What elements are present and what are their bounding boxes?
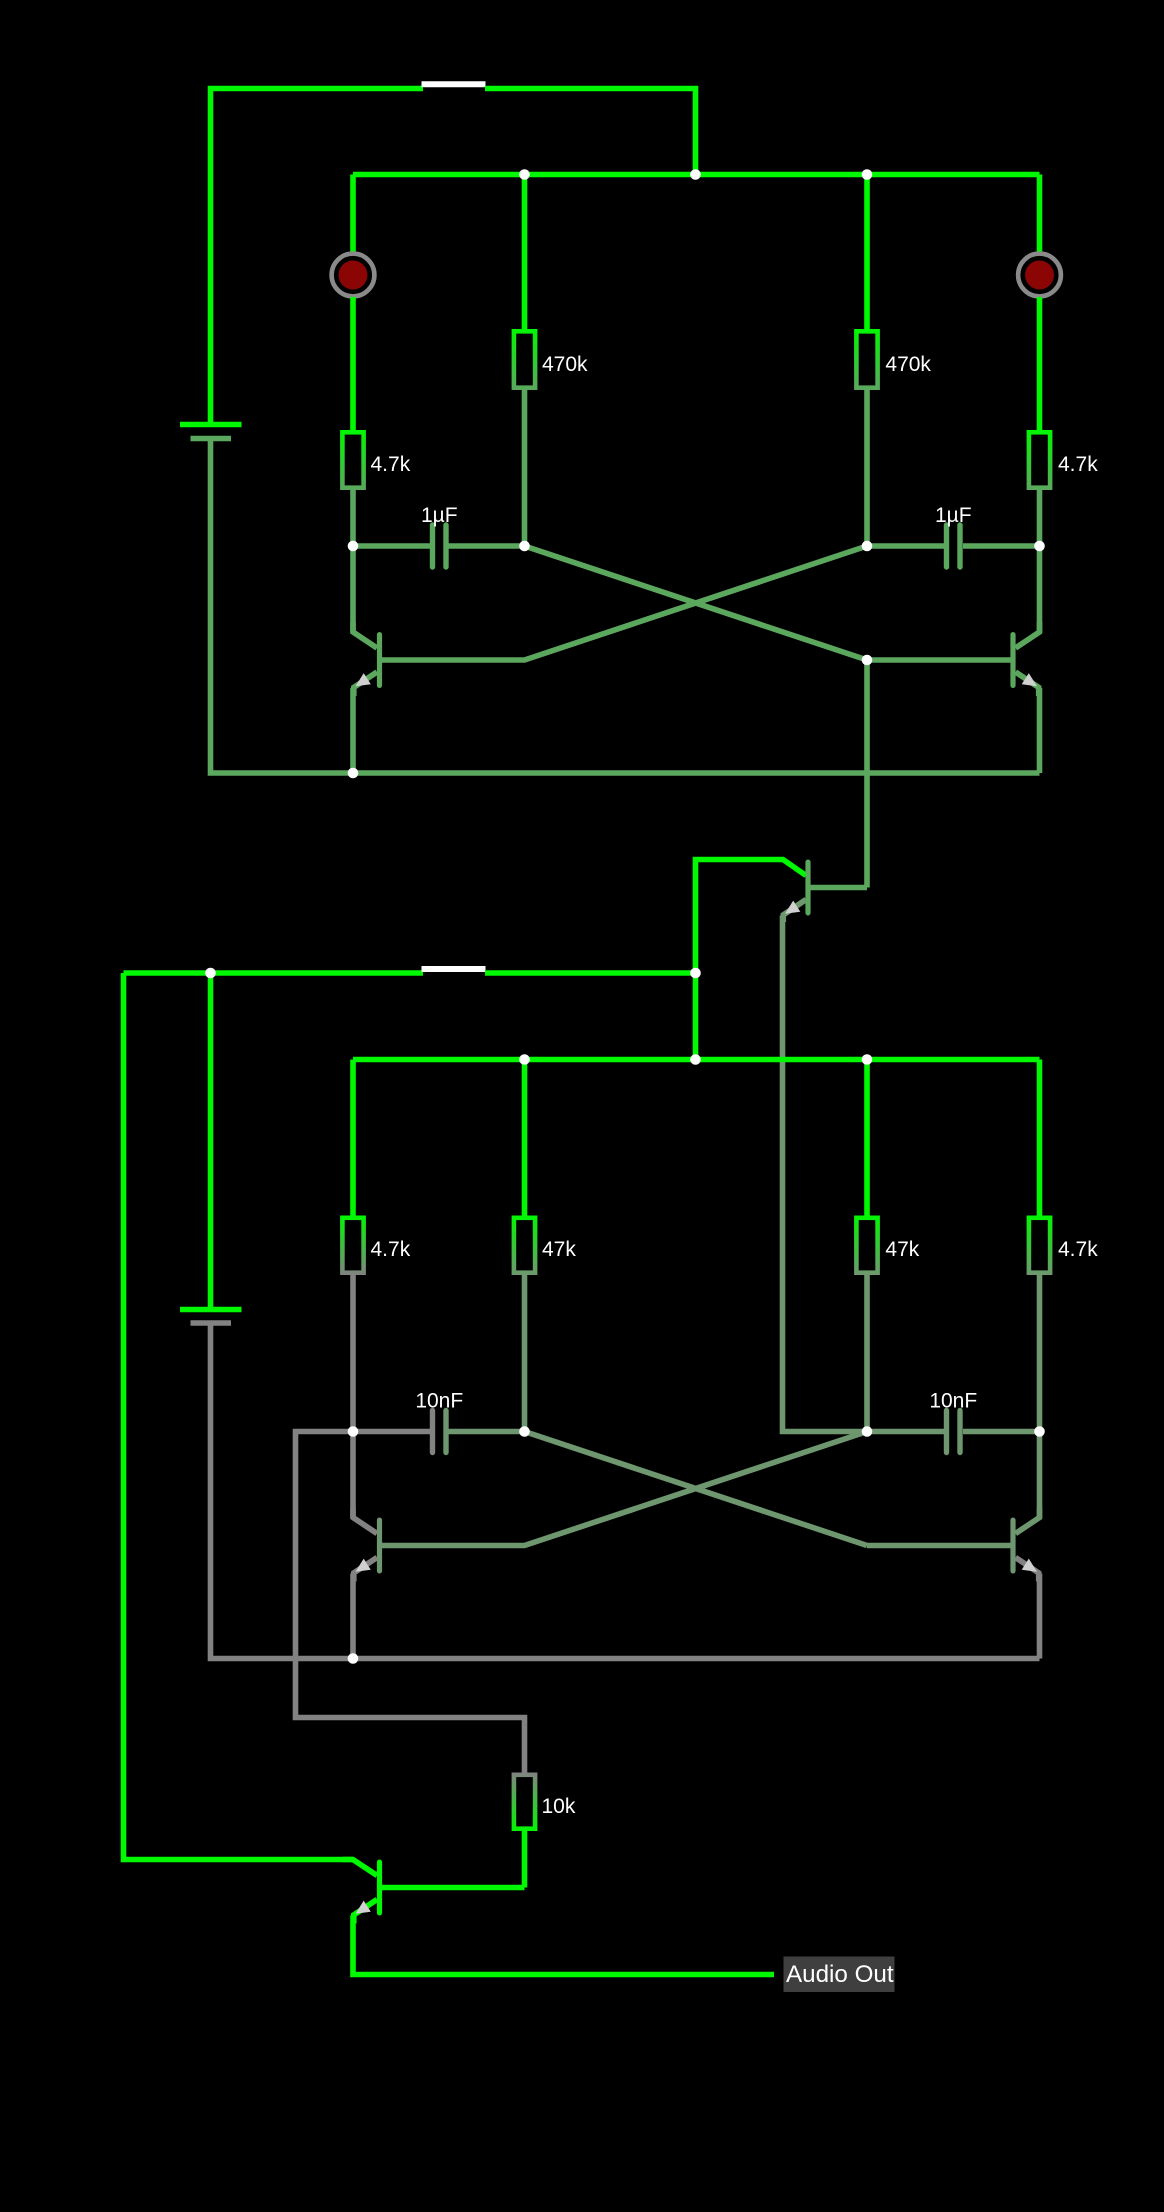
wire rail to LED D2 (1037, 175, 1043, 254)
battery B1 9V (180, 425, 242, 439)
resistor R4 4.7k (1029, 432, 1098, 487)
wire Q3 base lead (810, 885, 867, 891)
svg-text:Audio Out: Audio Out (786, 1961, 894, 1988)
transistor Q6 (NPN) output emitter follower emitter lead (354, 1900, 377, 1924)
wire R4 to node/collector Q2 (1037, 490, 1043, 546)
resistor R3 470k (856, 331, 931, 387)
junction rail1-center (690, 169, 701, 180)
wire Q4 emitter to ground rail (350, 1574, 356, 1659)
transistor Q5 (NPN) emitter lead (1016, 1558, 1039, 1582)
svg-text:4.7k: 4.7k (371, 1238, 411, 1261)
transistor Q5 collector wire (1037, 1432, 1043, 1518)
capacitor C1 1uF (421, 504, 458, 567)
transistor Q5 (NPN) emitter arrow (1022, 1559, 1037, 1572)
wire rail to LED D1 (350, 175, 356, 254)
wire C3 to R6 node (449, 1429, 525, 1435)
wire rail to resistor R8 (1037, 1060, 1043, 1216)
wire Q3 emitter down to C4 left node (783, 916, 868, 1432)
wire R3 node to capacitor C2 (867, 543, 945, 549)
wire Q6 base lead (382, 1885, 525, 1891)
wire rail to resistor R6 (522, 1060, 528, 1216)
wire Q6 emitter to audio output (353, 1916, 774, 1975)
wire R3 to node (864, 390, 870, 546)
transistor Q1 (NPN) base bar (377, 635, 382, 686)
transistor Q2 (NPN) emitter lead (1016, 672, 1039, 696)
wire R7 to node (864, 1275, 870, 1432)
wire LED D2 to resistor R4 (1037, 297, 1043, 430)
resistor R8 4.7k (1029, 1218, 1098, 1273)
LED D2 (red) (1018, 254, 1061, 297)
switch S2 (closed) lever (422, 966, 486, 972)
transistor Q4 (NPN) base bar (377, 1520, 382, 1571)
wire rail to resistor R2 (522, 175, 528, 330)
LED D1 (red) (332, 254, 375, 297)
capacitor C2 1uF (935, 504, 972, 567)
svg-text:1µF: 1µF (421, 504, 458, 527)
transistor Q6 (NPN) output emitter follower emitter arrow (356, 1901, 371, 1914)
resistor R5 4.7k (342, 1218, 410, 1273)
wire Q5 emitter to ground rail (1037, 1574, 1043, 1659)
wire rail to resistor R7 (864, 1060, 870, 1216)
wire switch S1 right lead to center drop (485, 89, 696, 175)
wire circuit2 V+ to Q3 collector (696, 860, 807, 974)
wire R8 to node/collector Q5 (1037, 1275, 1043, 1432)
label Audio Out (784, 1957, 895, 1993)
wire battery B1 - to bottom rail circuit 1 (211, 441, 1040, 773)
transistor Q2 (NPN) emitter arrow (1022, 673, 1037, 686)
svg-text:4.7k: 4.7k (1058, 453, 1098, 476)
svg-text:4.7k: 4.7k (1058, 1238, 1098, 1261)
wire Q4 collector branch to 10k resistor (296, 1432, 525, 1773)
transistor Q6 (NPN) output emitter follower base bar (377, 1862, 382, 1913)
wire cross-coupling C3 node to Q5 base (525, 1432, 868, 1546)
transistor Q2 collector wire (1037, 546, 1043, 632)
wire Q2 emitter to negative rail (1037, 688, 1043, 773)
transistor Q5 (NPN) base bar (1010, 1520, 1015, 1571)
transistor Q4 (NPN) emitter arrow (356, 1559, 371, 1572)
wire cross-coupling C1 node to Q2 base (525, 546, 868, 660)
wire C4 to Q5 collector node (963, 1429, 1040, 1435)
svg-text:10nF: 10nF (929, 1390, 977, 1413)
wire battery B2 - to bottom rail circuit 2 (211, 1326, 1040, 1659)
wire R5 to node/collector Q4 (350, 1275, 356, 1432)
junction rail1-470k-left (519, 169, 530, 180)
transistor Q1 (NPN) emitter lead (354, 672, 377, 696)
transistor Q5 (NPN) collector lead (1016, 1508, 1040, 1534)
wire V+ rail circuit 1 (353, 172, 1040, 178)
wire R2 to node (522, 390, 528, 546)
svg-text:4.7k: 4.7k (371, 453, 411, 476)
node Q3 collector on rail (690, 968, 701, 979)
wire R1 to node/collector Q1 (350, 490, 356, 546)
wire Q5 base lead (867, 1543, 1012, 1549)
node Q1 collector (348, 541, 359, 552)
junction rail2-47k-right (862, 1054, 873, 1065)
wire center drop circuit2 (693, 973, 699, 1060)
transistor Q1 (NPN) emitter arrow (356, 673, 371, 686)
resistor R1 4.7k (342, 432, 410, 487)
wire Q4 collector to capacitor C3 (353, 1429, 430, 1435)
resistor R2 470k (514, 331, 588, 387)
wire rail to resistor R5 (350, 1060, 356, 1216)
svg-text:10nF: 10nF (415, 1390, 463, 1413)
wire Q2 base lead (867, 657, 1012, 663)
transistor Q6 (NPN) output emitter follower collector lead (343, 1860, 377, 1876)
wire cross-coupling C4 node to Q4 base (382, 1432, 868, 1546)
node Q4 collector (348, 1426, 359, 1437)
wire cross-coupling C2 node to Q1 base (382, 546, 868, 660)
capacitor C4 10nF (929, 1390, 977, 1453)
resistor R7 47k (856, 1218, 919, 1273)
junction rail2-center (690, 1054, 701, 1065)
junction rail1-470k-right (862, 169, 873, 180)
node Q2 base junction (862, 655, 873, 666)
transistor Q4 collector wire (350, 1432, 356, 1518)
wire left V+ column to output transistor Q6 (124, 973, 354, 1860)
wire Q1 emitter to negative rail (350, 688, 356, 773)
svg-text:470k: 470k (542, 353, 588, 376)
junction rail2-47k-left (519, 1054, 530, 1065)
node R6 bottom / C3 right (519, 1426, 530, 1437)
transistor Q2 (NPN) base bar (1010, 635, 1015, 686)
resistor R9 10k (514, 1775, 576, 1829)
transistor Q2 (NPN) collector lead (1016, 622, 1040, 648)
wire R6 to node (522, 1275, 528, 1432)
wire switch S2 to center node (485, 970, 696, 976)
wire V+ rail circuit 2 (353, 1057, 1040, 1063)
transistor Q3 base bar (805, 862, 810, 913)
wire battery B1 + to top rail and switch S1 left lead (211, 89, 424, 425)
node R7 bottom / C4 left (862, 1426, 873, 1437)
wire R9 to Q6 base (522, 1831, 528, 1888)
wire C2 to Q2 collector node (963, 543, 1040, 549)
svg-text:10k: 10k (542, 1795, 576, 1818)
wire circuit2 top rail left segment (124, 970, 424, 976)
wire Q1 collector to capacitor C1 (353, 543, 430, 549)
svg-text:47k: 47k (885, 1238, 919, 1261)
wire battery B2 + up to rail (208, 973, 214, 1310)
wire rail to resistor R3 (864, 175, 870, 330)
resistor R6 47k (514, 1218, 576, 1273)
switch S1 (closed) lever (422, 81, 486, 87)
node R3 bottom / C2 left (862, 541, 873, 552)
node emitter rail junction (348, 768, 359, 779)
node Q2 collector (1034, 541, 1045, 552)
node R2 bottom / C1 right (519, 541, 530, 552)
node Q4 emitter rail junction (348, 1653, 359, 1664)
transistor Q4 (NPN) emitter lead (354, 1558, 377, 1582)
wire C1 to R2 node (449, 543, 525, 549)
svg-text:470k: 470k (885, 353, 931, 376)
transistor Q1 collector wire (350, 546, 356, 632)
transistor Q1 (NPN) collector lead (353, 622, 377, 648)
svg-text:47k: 47k (542, 1238, 576, 1261)
capacitor C3 10nF (415, 1390, 463, 1453)
node battery B2 + on rail (205, 968, 216, 979)
wire LED D1 to resistor R1 (350, 297, 356, 430)
transistor Q3 emitter arrow (785, 901, 800, 914)
transistor Q4 (NPN) collector lead (353, 1508, 377, 1534)
node Q5 collector (1034, 1426, 1045, 1437)
battery B2 9V (180, 1310, 242, 1324)
wire Q2 base node down to Q3 base (864, 660, 870, 888)
transistor Q3 emitter lead (783, 900, 806, 923)
svg-text:1µF: 1µF (935, 504, 972, 527)
wire R7 node to capacitor C4 (867, 1429, 945, 1435)
